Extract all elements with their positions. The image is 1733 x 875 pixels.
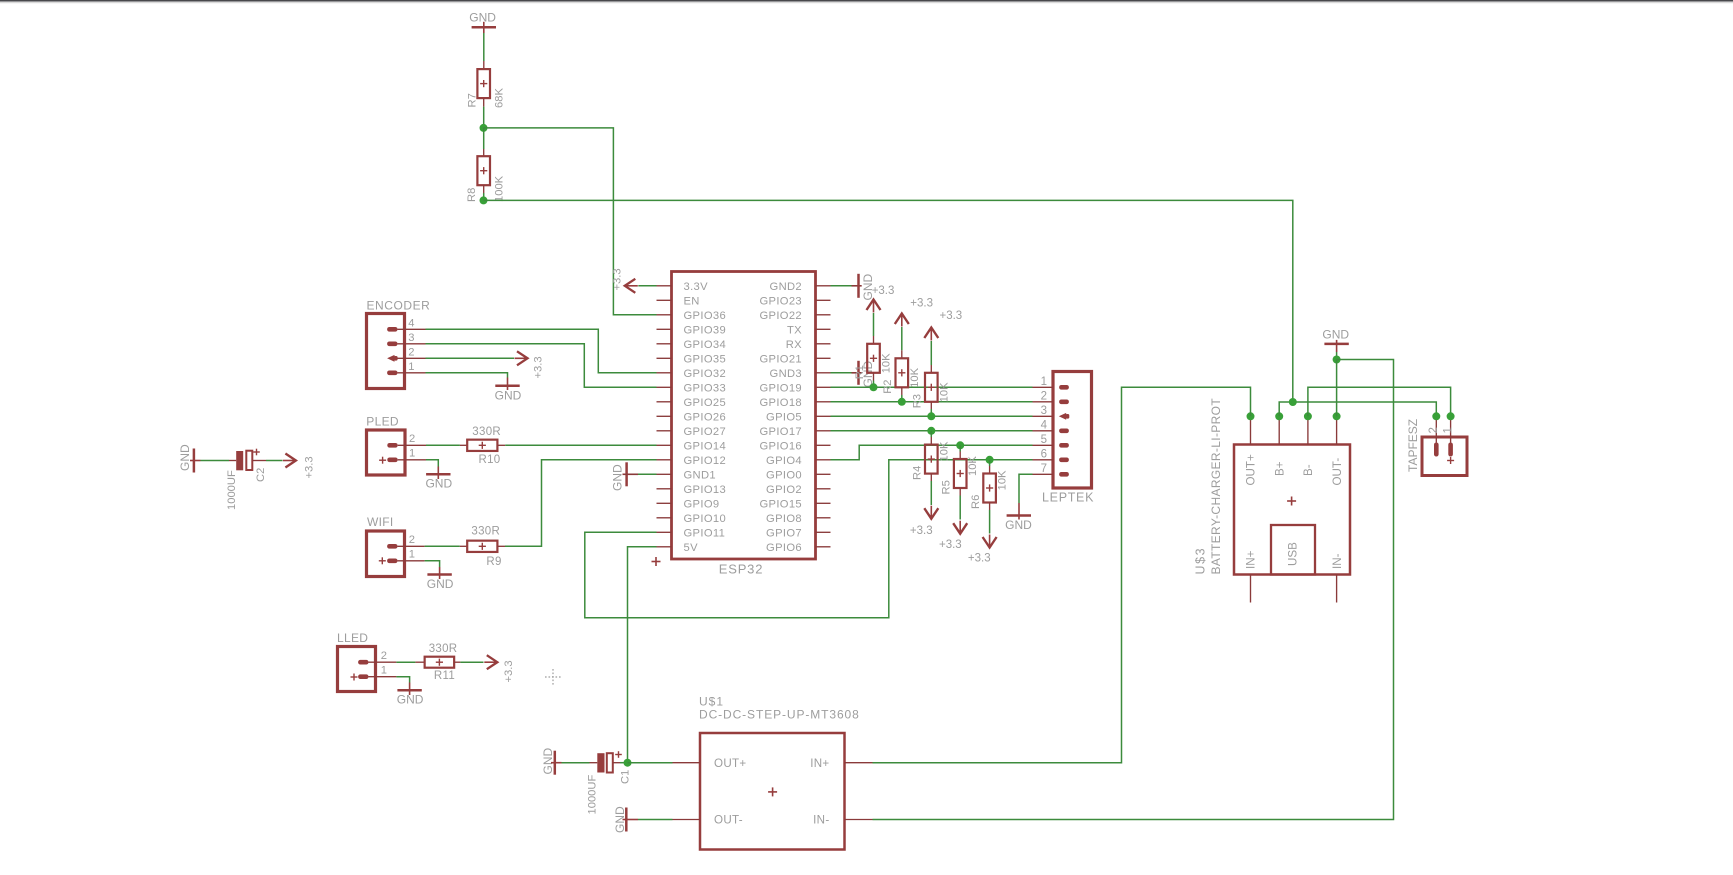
wire WIFI.2 to R9 [425, 545, 460, 547]
U$3 origin mark [1287, 500, 1296, 502]
svg-text:68K: 68K [494, 88, 506, 108]
wire net to R6 [989, 460, 991, 466]
WIFI pin stubs [398, 545, 425, 547]
svg-text:1000UF: 1000UF [226, 470, 238, 510]
wire 5V down to C1/OUT+ node [628, 547, 657, 763]
svg-text:GPIO7: GPIO7 [766, 528, 802, 540]
wire junction to R8 [483, 128, 485, 149]
svg-text:2: 2 [1041, 390, 1047, 402]
svg-text:GPIO18: GPIO18 [759, 397, 802, 409]
ground GND (below LEPTEK) [1018, 503, 1020, 520]
svg-text:+3.3: +3.3 [533, 356, 545, 378]
IC U$3 BATTERY-CHARGER-LI-PROT body [1234, 445, 1350, 575]
junction GND/IN- net [1333, 356, 1341, 364]
U$1 pin IN- stub [845, 819, 873, 821]
resistor R10 330R [467, 440, 497, 451]
LLED pin stubs [369, 661, 397, 663]
resistor R4 10K [925, 445, 938, 474]
svg-text:OUT-: OUT- [714, 814, 743, 827]
svg-text:10K: 10K [938, 441, 950, 461]
svg-text:GPIO6: GPIO6 [766, 542, 802, 554]
svg-text:GPIO27: GPIO27 [684, 426, 727, 438]
ESP32 left pin stubs [657, 285, 672, 287]
wire GPIO17 net to R4 [930, 431, 932, 437]
IC U$1 DC-DC-STEP-UP-MT3608 body [700, 733, 845, 850]
resistor R3 10K [925, 373, 938, 402]
svg-text:GPIO17: GPIO17 [759, 426, 802, 438]
svg-text:GPIO8: GPIO8 [766, 513, 802, 525]
svg-text:GPIO14: GPIO14 [684, 441, 727, 453]
svg-text:GPIO33: GPIO33 [684, 383, 727, 395]
resistor R9 330R [467, 541, 497, 552]
svg-text:GND: GND [397, 693, 424, 707]
wire LEPTEK.7 to GND [1019, 474, 1033, 503]
ground GND (below ENCODER) [507, 378, 509, 391]
supply +3.3 arrow (R5, down) [953, 523, 967, 534]
svg-text:R1: R1 [854, 365, 866, 379]
svg-text:IN+: IN+ [810, 757, 829, 770]
junction R7/R8 divider tap [480, 124, 488, 132]
U$3 pin IN- stub (bottom) [1336, 575, 1338, 603]
junction R5/GPIO4 net [956, 441, 964, 449]
svg-text:2: 2 [381, 650, 387, 662]
svg-text:GND2: GND2 [770, 281, 802, 293]
svg-text:R4: R4 [912, 466, 924, 480]
svg-text:GPIO2: GPIO2 [766, 484, 802, 496]
U$1 origin mark [768, 791, 777, 793]
svg-text:3: 3 [408, 332, 414, 344]
wire GND2 to ground [831, 285, 852, 287]
supply +3.3 arrow (R6, down) [983, 537, 997, 548]
resistor R11 330R [425, 657, 455, 668]
U$3 pin OUT+ stub [1250, 416, 1252, 444]
wire R2 to GPIO18 net [901, 387, 903, 395]
resistor R2 10K [896, 358, 909, 387]
connector TAPFESZ body [1422, 437, 1467, 476]
wire LLED.1 to GND [396, 677, 409, 683]
svg-text:GPIO23: GPIO23 [759, 296, 802, 308]
svg-text:GND: GND [541, 748, 555, 775]
wire WIFI.1 to GND [425, 561, 440, 567]
svg-text:GND: GND [495, 388, 522, 402]
svg-text:ESP32: ESP32 [719, 562, 763, 577]
svg-text:GND: GND [178, 444, 192, 471]
svg-text:R6: R6 [970, 495, 982, 509]
svg-text:LLED: LLED [337, 631, 368, 645]
connector ENCODER body [367, 314, 405, 389]
svg-text:BATTERY-CHARGER-LI-PROT: BATTERY-CHARGER-LI-PROT [1209, 398, 1223, 575]
supply +3.3 arrow (R3) [924, 328, 938, 339]
svg-text:330R: 330R [472, 426, 501, 438]
svg-text:R10: R10 [479, 454, 501, 466]
resistor R7 68K [477, 69, 490, 98]
svg-text:GPIO35: GPIO35 [684, 354, 727, 366]
svg-text:GPIO16: GPIO16 [759, 441, 802, 453]
svg-text:WIFI: WIFI [367, 515, 394, 529]
svg-text:GPIO13: GPIO13 [684, 484, 727, 496]
svg-text:GPIO12: GPIO12 [684, 455, 727, 467]
PLED pin pads [387, 443, 397, 448]
svg-text:OUT+: OUT+ [714, 757, 746, 770]
WIFI origin mark [379, 560, 386, 562]
svg-text:R9: R9 [486, 556, 501, 568]
svg-text:10K: 10K [938, 382, 950, 402]
svg-text:GPIO4: GPIO4 [766, 455, 802, 467]
U$3 pin OUT- stub [1336, 416, 1338, 444]
svg-text:+3.3: +3.3 [503, 660, 515, 682]
junction OUT- pin [1333, 412, 1341, 420]
svg-text:R7: R7 [467, 93, 479, 107]
U$1 pin OUT+ stub [673, 762, 701, 764]
U$1 pin IN+ stub [845, 762, 873, 764]
svg-text:GPIO0: GPIO0 [766, 470, 802, 482]
junction R6/GPIO11 net [986, 456, 994, 464]
svg-text:R11: R11 [434, 670, 455, 682]
wire +3.3 to R2 [901, 327, 903, 350]
svg-text:GPIO11: GPIO11 [684, 528, 726, 540]
wire R6 to +3.3 [989, 503, 991, 511]
svg-text:1: 1 [409, 448, 415, 460]
junction R3/GPIO5 [927, 412, 935, 420]
wire R8 to junction 2 [483, 185, 485, 193]
svg-text:OUT-: OUT- [1331, 458, 1344, 486]
svg-text:GND: GND [469, 11, 496, 25]
junction TAPFESZ.2 [1432, 412, 1440, 420]
IC ESP32 body [672, 272, 816, 560]
wire R4 to +3.3 [930, 474, 932, 481]
svg-text:GND3: GND3 [770, 368, 802, 380]
svg-text:1: 1 [1442, 427, 1454, 433]
ground GND (GND3, rotated) [852, 372, 862, 374]
WIFI pin pads [387, 544, 397, 549]
LEPTEK pin stubs [1033, 386, 1054, 388]
LEPTEK pin pads [1059, 385, 1069, 390]
wire divider tap to GPIO36 (net down at x613) [484, 128, 657, 315]
svg-text:7: 7 [1041, 463, 1047, 475]
resistor R5 10K [954, 459, 967, 488]
svg-text:GPIO25: GPIO25 [684, 397, 727, 409]
connector PLED body [367, 430, 406, 475]
svg-text:GPIO15: GPIO15 [759, 499, 802, 511]
svg-text:10K: 10K [881, 353, 893, 373]
svg-text:5: 5 [1041, 434, 1047, 446]
svg-text:3: 3 [1041, 405, 1047, 417]
wire GND3 to ground [831, 372, 852, 374]
PLED origin mark [379, 459, 386, 461]
wire ENCODER.1 to GND [426, 373, 508, 378]
svg-text:R8: R8 [466, 188, 478, 202]
ground GND (below PLED) [437, 467, 439, 480]
svg-text:330R: 330R [429, 643, 458, 655]
LLED origin mark [351, 676, 358, 678]
wire C2 to +3.3 [252, 460, 266, 462]
junction C1/5V/OUT+ [624, 759, 632, 767]
resistor R6 10K [983, 474, 996, 503]
svg-text:RX: RX [786, 339, 802, 351]
svg-text:GPIO22: GPIO22 [759, 310, 802, 322]
TAPFESZ origin mark [1447, 460, 1454, 462]
wire ENCODER.4 to GPIO32 [426, 329, 657, 373]
junction B+ net [1289, 398, 1297, 406]
ground GND (below LLED) [409, 683, 411, 696]
svg-text:GPIO19: GPIO19 [759, 383, 802, 395]
wire GND to C2 [201, 460, 230, 462]
wire GPIO11 to LEPTEK.6 (down-around) [585, 460, 1033, 618]
wire R5 to +3.3 [959, 488, 961, 496]
svg-text:2: 2 [409, 433, 415, 445]
svg-text:1: 1 [408, 361, 414, 373]
U$1 pin OUT- stub [673, 819, 701, 821]
svg-text:3.3V: 3.3V [684, 281, 709, 293]
svg-text:10K: 10K [997, 470, 1009, 490]
ESP32 origin mark [652, 561, 661, 563]
wire battery+ net (to charger B+ column) [484, 200, 1293, 402]
svg-text:2: 2 [409, 534, 415, 546]
U$3 pin B+ stub [1278, 416, 1280, 444]
svg-text:B+: B+ [1273, 461, 1286, 476]
svg-text:EN: EN [684, 296, 700, 308]
wire +3.3 to R3 [930, 341, 932, 365]
wire R3 to GPIO5 net [930, 402, 932, 409]
wire U$1 IN- to GND net [873, 360, 1394, 820]
svg-text:GND: GND [1005, 518, 1032, 532]
connector WIFI body [367, 531, 405, 577]
wire B+ net (junction to B+ and TAPFESZ.2) [1279, 402, 1436, 416]
TAPFESZ pin stubs [1435, 416, 1437, 442]
svg-text:2: 2 [1428, 427, 1440, 433]
wire R11 to +3.3 [454, 661, 460, 663]
wire GND to OUT- net [1336, 352, 1338, 360]
ground GND (below WIFI) [439, 567, 441, 579]
ground GND (GND2, rotated) [852, 285, 862, 287]
wire B- net (B- to TAPFESZ.1) [1308, 387, 1451, 416]
svg-text:10K: 10K [909, 367, 921, 387]
svg-text:GPIO21: GPIO21 [759, 354, 802, 366]
svg-text:GPIO10: GPIO10 [684, 513, 727, 525]
wire GPIO19 to LEPTEK.1 [831, 386, 1033, 388]
wire R7 to junction [483, 99, 485, 107]
svg-text:R2: R2 [882, 379, 894, 393]
svg-text:GND: GND [611, 464, 625, 491]
supply +3.3 arrow (R1) [867, 300, 881, 311]
wire GND to U$1 OUT- [638, 819, 673, 821]
wire junction to U$1 OUT+ [628, 762, 673, 764]
wire PLED.1 to GND [426, 460, 438, 467]
svg-text:GPIO26: GPIO26 [684, 412, 727, 424]
supply +3.3 arrow at 3.3V pin [625, 279, 636, 293]
svg-text:IN+: IN+ [1245, 550, 1258, 569]
svg-text:U$3: U$3 [1194, 547, 1208, 575]
svg-text:1: 1 [409, 549, 415, 561]
wire C1 to OUT+ node [613, 762, 620, 764]
svg-text:+3.3: +3.3 [872, 285, 895, 297]
svg-text:+3.3: +3.3 [939, 539, 962, 551]
svg-text:+3.3: +3.3 [968, 553, 991, 565]
wire LLED.2 to R11 [396, 661, 415, 663]
wire GPIO5 to LEPTEK.3 [831, 415, 1033, 417]
svg-text:+3.3: +3.3 [304, 456, 316, 478]
resistor R1 10K [867, 344, 880, 373]
svg-text:1000UF: 1000UF [586, 775, 598, 815]
ENCODER pin pads [387, 327, 397, 332]
wire GPIO17 to LEPTEK.4 [831, 430, 1033, 432]
svg-text:DC-DC-STEP-UP-MT3608: DC-DC-STEP-UP-MT3608 [699, 708, 860, 722]
supply +3.3 arrow (ENCODER.2) [517, 351, 528, 365]
svg-text:USB: USB [1287, 542, 1300, 566]
svg-text:4: 4 [1041, 419, 1048, 431]
supply +3.3 arrow (C2) [285, 454, 296, 468]
junction R2/GPIO18 [898, 398, 906, 406]
wire R9 to GPIO12 [497, 545, 505, 547]
svg-text:GPIO32: GPIO32 [684, 368, 727, 380]
svg-text:PLED: PLED [366, 415, 399, 429]
wire GPIO18 to LEPTEK.2 [831, 401, 1033, 403]
svg-text:R3: R3 [912, 394, 924, 408]
wire ENCODER.2 to +3.3 [426, 357, 515, 359]
svg-text:GPIO9: GPIO9 [684, 499, 720, 511]
PLED pin stubs [398, 444, 426, 446]
svg-text:B-: B- [1302, 464, 1315, 476]
svg-text:GND: GND [427, 577, 454, 591]
connector LEPTEK body [1053, 372, 1092, 489]
ENCODER pin stubs [398, 328, 426, 330]
capacitor C2 1000UF [236, 451, 243, 470]
TAPFESZ pin pads [1434, 443, 1439, 457]
svg-text:C1: C1 [620, 770, 632, 784]
junction R8 bottom / battery sense net [480, 196, 488, 204]
sheet origin cross [545, 676, 561, 678]
svg-text:GPIO5: GPIO5 [766, 412, 802, 424]
supply +3.3 arrow (R4, down) [924, 508, 938, 519]
capacitor C1 1000UF [597, 753, 604, 772]
wire ENCODER.3 to GPIO33 [426, 344, 657, 388]
svg-text:4: 4 [408, 317, 414, 329]
wire GPIO4 to LEPTEK.5 (jog up) [831, 445, 1033, 460]
svg-text:+3.3: +3.3 [940, 310, 963, 322]
U$3 pin B- stub [1307, 416, 1309, 444]
wire R10 to GPIO14 [498, 444, 506, 446]
junction B+ pin [1275, 412, 1283, 420]
wire +3.3 to R1 [873, 313, 875, 336]
svg-text:1: 1 [1041, 376, 1047, 388]
svg-text:1: 1 [381, 665, 387, 677]
svg-text:6: 6 [1041, 448, 1047, 460]
svg-text:R5: R5 [941, 480, 953, 494]
LLED pin pads [358, 660, 368, 665]
junction TAPFESZ.1 [1447, 412, 1455, 420]
svg-text:LEPTEK: LEPTEK [1042, 491, 1094, 505]
resistor R8 100K [477, 156, 490, 185]
svg-text:OUT+: OUT+ [1245, 454, 1258, 485]
svg-text:IN-: IN- [813, 814, 829, 827]
svg-text:ENCODER: ENCODER [367, 299, 431, 313]
svg-text:10K: 10K [967, 456, 979, 476]
svg-text:+3.3: +3.3 [910, 298, 933, 310]
wire GND to C1 [562, 762, 590, 764]
wire GND net down to OUT- [1336, 360, 1338, 417]
svg-text:2: 2 [408, 346, 414, 358]
connector LLED body [338, 647, 376, 692]
svg-text:330R: 330R [471, 526, 500, 538]
wire R1 to GPIO19 net [873, 373, 875, 381]
wire GND to R7 [483, 33, 485, 61]
svg-text:TX: TX [787, 325, 802, 337]
svg-text:TAPFESZ: TAPFESZ [1406, 419, 1420, 472]
svg-text:U$1: U$1 [699, 695, 724, 709]
wire PLED.2 to R10 [426, 444, 460, 446]
svg-text:GPIO36: GPIO36 [684, 310, 727, 322]
svg-text:GND1: GND1 [684, 470, 716, 482]
U$3 pin IN+ stub (bottom) [1250, 575, 1252, 603]
junction R1/GPIO19 [870, 383, 878, 391]
svg-text:IN-: IN- [1331, 553, 1344, 569]
U$3 USB sub-box [1271, 525, 1315, 575]
svg-text:GND: GND [425, 477, 452, 491]
svg-text:GPIO39: GPIO39 [684, 325, 727, 337]
top window border [0, 0, 1733, 1]
supply +3.3 arrow (R2) [895, 314, 909, 325]
svg-text:100K: 100K [494, 175, 506, 202]
svg-text:5V: 5V [684, 542, 699, 554]
wire net to R5 [959, 445, 961, 451]
junction B- pin [1304, 412, 1312, 420]
svg-text:GPIO34: GPIO34 [684, 339, 727, 351]
wire U$1 IN+ to U$3 OUT+ [873, 387, 1251, 762]
svg-text:+3.3: +3.3 [910, 525, 933, 537]
wire ground to GND1 pin [638, 473, 657, 475]
junction OUT+ pin [1247, 412, 1255, 420]
supply +3.3 arrow (R11) [487, 655, 498, 669]
svg-text:GND: GND [1322, 328, 1349, 342]
svg-text:+3.3: +3.3 [611, 268, 623, 290]
ESP32 right pin stubs [816, 285, 831, 287]
svg-text:C2: C2 [255, 468, 267, 482]
junction R4/GPIO17 [927, 427, 935, 435]
